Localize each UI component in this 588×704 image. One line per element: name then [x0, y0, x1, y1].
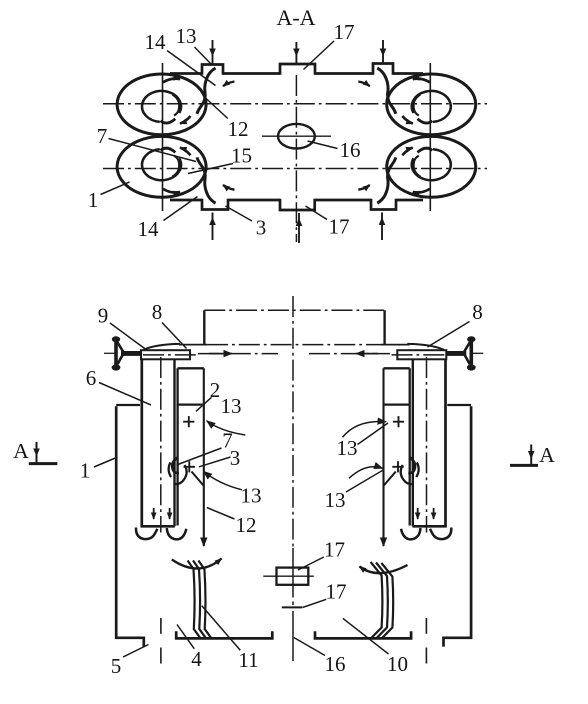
leader 13 left second swoosh	[204, 471, 243, 490]
swoosh 13 right first	[343, 422, 387, 438]
top block top edge	[204, 309, 384, 311]
leader 13 top	[195, 47, 212, 65]
leader 2 slash	[196, 397, 212, 411]
svg-text:10: 10	[387, 652, 408, 676]
leader 17 center first	[298, 557, 324, 570]
svg-text:5: 5	[111, 654, 122, 678]
valve rect 17	[277, 568, 309, 585]
top view vertical center line	[295, 75, 297, 242]
sight glass 16 ellipse	[278, 124, 315, 149]
left bundle arc arrow	[172, 559, 222, 569]
leader 4 slash	[177, 625, 194, 649]
svg-text:8: 8	[472, 300, 483, 324]
lower row center line	[103, 168, 487, 170]
svg-text:11: 11	[238, 648, 258, 672]
left side assembly	[104, 336, 272, 663]
svg-text:3: 3	[256, 216, 267, 240]
leader 17 bottom	[306, 206, 328, 220]
right shaft vertical line	[429, 63, 431, 211]
center vertical line	[292, 296, 294, 548]
svg-text:14: 14	[145, 30, 167, 54]
arrow into bottom-right tab	[381, 213, 383, 241]
inlet tab top-right	[373, 64, 393, 75]
right side assembly	[315, 336, 483, 663]
arrow into top-left tab	[212, 40, 214, 64]
svg-text:8: 8	[152, 300, 163, 324]
inlet tab top-middle	[280, 64, 315, 75]
leader 7 lower	[177, 448, 222, 465]
left shaft vertical line	[162, 63, 164, 211]
lobe lower-left	[117, 136, 234, 203]
leader 13 right second	[346, 470, 384, 492]
tab bottom-right	[371, 199, 396, 210]
leader 11	[202, 606, 241, 651]
leader 7 top view	[109, 139, 197, 162]
tab bottom-left	[202, 199, 228, 210]
leader 1 top view	[101, 182, 130, 195]
lobe upper-right	[358, 68, 475, 135]
svg-text:1: 1	[80, 459, 91, 483]
svg-text:13: 13	[221, 394, 242, 418]
top view body bottom edge	[170, 199, 423, 202]
svg-text:15: 15	[231, 144, 252, 168]
svg-text:17: 17	[334, 20, 355, 44]
rail axis	[198, 353, 278, 355]
leader 16 top view	[308, 141, 338, 149]
arrow into bottom-middle tab	[298, 213, 300, 243]
svg-text:4: 4	[191, 647, 202, 671]
svg-text:17: 17	[329, 215, 350, 239]
top view body top edge	[170, 72, 423, 75]
lobe lower-right	[358, 136, 475, 203]
leader 14 top	[167, 51, 216, 86]
upper row center line	[103, 103, 487, 105]
leader 10	[343, 618, 389, 654]
leader 3 bottom	[226, 206, 253, 221]
leader 5	[123, 645, 149, 658]
svg-text:13: 13	[241, 484, 262, 508]
svg-text:12: 12	[236, 513, 257, 537]
right bundle arc arrow	[360, 565, 408, 573]
sight glass horizontal line	[262, 135, 331, 137]
tick 17	[282, 606, 302, 608]
swoosh 13 right second	[349, 467, 383, 479]
lobe upper-left	[117, 68, 234, 135]
leader 8 left	[162, 323, 187, 349]
svg-text:9: 9	[98, 304, 109, 328]
leader 12 lower	[207, 508, 235, 520]
right stirrer bundle	[371, 562, 394, 638]
rail arrow right	[356, 353, 378, 355]
svg-text:3: 3	[230, 446, 241, 470]
arrow into top-right tab	[382, 40, 384, 63]
top block right edge	[383, 310, 385, 345]
leader 1 lower	[94, 458, 117, 468]
svg-text:7: 7	[97, 124, 108, 148]
leader 8 right	[428, 322, 470, 348]
svg-text:1: 1	[88, 188, 99, 212]
arrow into bottom-left tab	[212, 213, 214, 241]
svg-text:16: 16	[325, 652, 346, 676]
svg-text:A: A	[539, 443, 555, 467]
leader 13 left first swoosh	[207, 421, 246, 435]
leader 17 center second	[303, 599, 327, 607]
left stirrer bundle	[188, 561, 212, 639]
svg-text:6: 6	[86, 366, 97, 390]
leader 14 bottom	[164, 197, 198, 221]
svg-text:13: 13	[337, 436, 358, 460]
svg-text:A: A	[13, 439, 29, 463]
rect cross line	[263, 575, 314, 577]
svg-text:16: 16	[340, 138, 361, 162]
leader 12	[205, 98, 228, 119]
leader 13 right first	[358, 423, 389, 445]
leader 9	[110, 323, 146, 350]
arrow into top-middle tab	[295, 42, 297, 64]
leader 15	[188, 164, 233, 174]
leader 17 top	[304, 41, 335, 70]
rail arrow left	[209, 353, 232, 355]
svg-text:17: 17	[324, 538, 345, 562]
leader 3 lower	[199, 457, 231, 467]
casing top line	[179, 344, 207, 346]
inlet tab top-left	[202, 65, 223, 75]
svg-text:12: 12	[228, 117, 249, 141]
svg-text:17: 17	[326, 580, 347, 604]
leader 16 lower	[294, 638, 325, 656]
tab bottom-middle	[280, 199, 315, 210]
leader 6	[99, 383, 151, 406]
svg-text:13: 13	[325, 488, 346, 512]
svg-text:A-A: A-A	[276, 5, 315, 30]
top block left edge	[203, 310, 205, 345]
svg-text:13: 13	[176, 24, 197, 48]
svg-text:14: 14	[138, 217, 160, 241]
